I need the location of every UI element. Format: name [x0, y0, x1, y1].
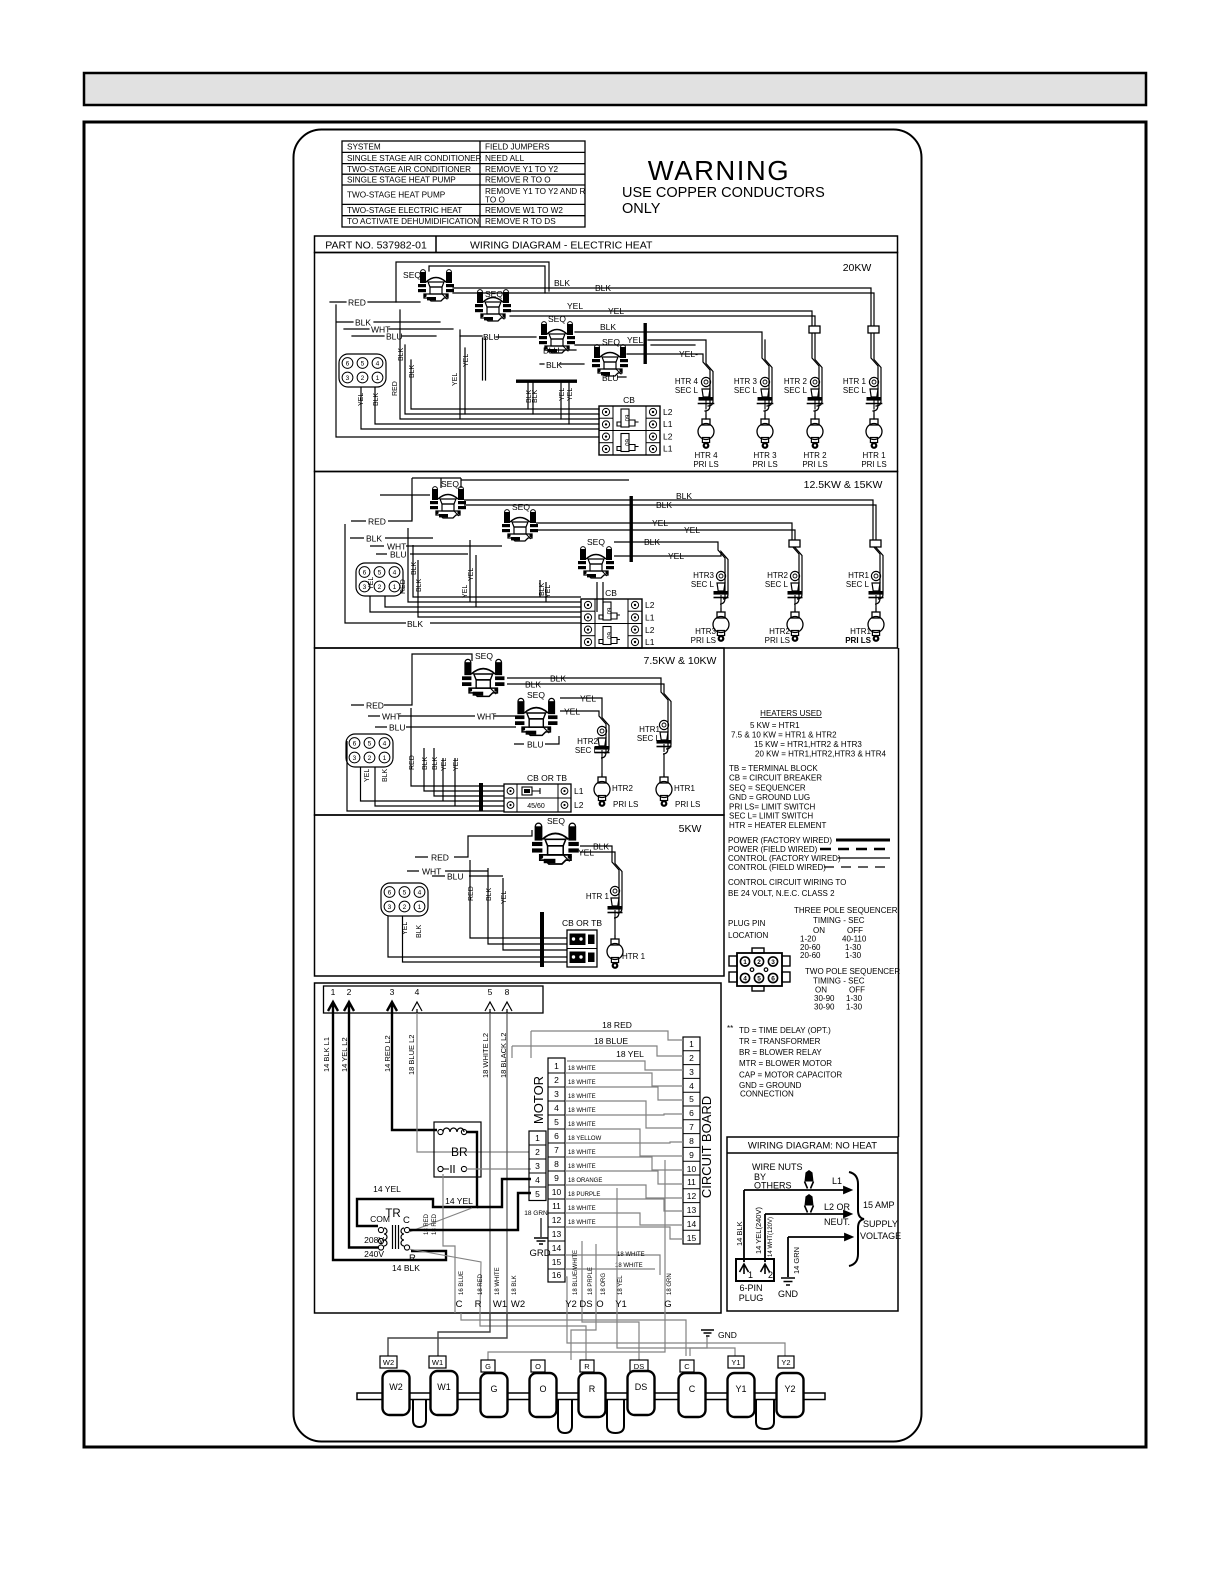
svg-text:SEQ = SEQUENCER: SEQ = SEQUENCER — [729, 783, 806, 792]
svg-text:FIELD JUMPERS: FIELD JUMPERS — [485, 143, 550, 152]
svg-text:8: 8 — [554, 1159, 559, 1169]
svg-text:RED: RED — [392, 381, 399, 396]
svg-text:14 YEL(240V): 14 YEL(240V) — [754, 1207, 763, 1254]
svg-text:PRI LS= LIMIT SWITCH: PRI LS= LIMIT SWITCH — [729, 802, 816, 811]
wire BLU — [352, 335, 482, 337]
svg-text:BLK: BLK — [422, 756, 429, 770]
jumper hook R-DS — [607, 1400, 624, 1433]
svg-text:CB: CB — [605, 588, 617, 598]
svg-text:SEC L: SEC L — [637, 734, 661, 743]
svg-text:6: 6 — [689, 1108, 694, 1118]
svg-text:R: R — [584, 1362, 590, 1371]
svg-text:YEL: YEL — [462, 585, 469, 598]
svg-text:BLK: BLK — [554, 278, 570, 288]
svg-text:18 WHITE: 18 WHITE — [617, 1252, 645, 1258]
sequencer SEQ2 — [475, 290, 511, 321]
svg-text:7: 7 — [689, 1122, 694, 1132]
svg-text:REMOVE R TO DS: REMOVE R TO DS — [485, 217, 556, 226]
svg-text:18 WHITE: 18 WHITE — [568, 1066, 596, 1072]
svg-text:13: 13 — [552, 1229, 562, 1239]
svg-text:BLK: BLK — [656, 500, 672, 510]
6-pin plug box — [736, 1259, 774, 1281]
wire L1 — [744, 1187, 851, 1193]
svg-text:PRI LS: PRI LS — [845, 636, 871, 645]
wire BLK run to HTR1 — [464, 500, 880, 612]
wire WHT — [368, 715, 515, 717]
svg-text:14: 14 — [687, 1219, 697, 1229]
motor wires to circuit board — [565, 1073, 683, 1275]
svg-text:14 RED L2: 14 RED L2 — [383, 1035, 392, 1072]
svg-text:1: 1 — [743, 959, 747, 966]
heater column HTR3 — [734, 377, 778, 469]
svg-text:SEQ: SEQ — [403, 270, 421, 280]
svg-text:YEL: YEL — [545, 585, 552, 598]
svg-text:CONTROL CIRCUIT WIRING TO: CONTROL CIRCUIT WIRING TO — [728, 878, 846, 887]
jumper hook Y1-Y2 — [756, 1400, 774, 1429]
wire 18 RED — [531, 1031, 683, 1058]
svg-text:PRI LS: PRI LS — [802, 460, 827, 469]
wire BLK — [350, 537, 433, 539]
svg-text:YEL-: YEL- — [627, 335, 646, 345]
svg-text:6: 6 — [771, 976, 775, 983]
svg-text:L1: L1 — [663, 444, 673, 454]
svg-text:14 BLK: 14 BLK — [392, 1263, 420, 1273]
svg-text:SEQ: SEQ — [527, 690, 545, 700]
svg-text:14 GRN: 14 GRN — [792, 1247, 801, 1274]
svg-text:SYSTEM: SYSTEM — [347, 143, 381, 152]
junction bar vertical — [540, 912, 544, 967]
svg-text:BLK: BLK — [525, 680, 541, 690]
wire drops to CB bus — [345, 524, 603, 623]
wire YEL run to HTR2 — [510, 311, 819, 419]
svg-text:YEL: YEL — [453, 758, 460, 771]
svg-text:SEC L: SEC L — [734, 386, 758, 395]
terminal bus bar — [357, 1393, 825, 1400]
svg-text:TD = TIME DELAY (OPT.): TD = TIME DELAY (OPT.) — [739, 1026, 831, 1035]
svg-text:BLK: BLK — [416, 924, 423, 938]
wire C to small box — [461, 1313, 686, 1356]
svg-text:SEC L: SEC L — [691, 580, 715, 589]
svg-text:MOTOR: MOTOR — [531, 1076, 546, 1124]
svg-text:HTR 1: HTR 1 — [586, 892, 610, 901]
svg-text:10: 10 — [552, 1187, 562, 1197]
small box Y1 — [728, 1356, 744, 1368]
system / field jumpers table — [342, 141, 585, 227]
svg-text:HTR2: HTR2 — [767, 571, 788, 580]
svg-text:HTR1: HTR1 — [848, 571, 869, 580]
svg-text:6: 6 — [554, 1131, 559, 1141]
svg-text:BLK: BLK — [416, 578, 423, 592]
svg-text:BLK: BLK — [382, 768, 389, 782]
svg-text:18 WHITE: 18 WHITE — [568, 1206, 596, 1212]
svg-text:HTR2: HTR2 — [612, 784, 633, 793]
wire vertical pair HTR4 second — [648, 340, 772, 406]
wire BLK run 2 — [507, 684, 671, 749]
plug P2 6-pin — [356, 563, 403, 596]
wire GND — [788, 1234, 852, 1240]
svg-text:BE 24 VOLT, N.E.C. CLASS 2: BE 24 VOLT, N.E.C. CLASS 2 — [728, 889, 835, 898]
heater column HTR2 — [575, 726, 638, 809]
svg-text:SEQ: SEQ — [485, 289, 503, 299]
svg-text:HTR1: HTR1 — [639, 725, 660, 734]
arrow pin 8 — [502, 1002, 512, 1013]
svg-text:SINGLE STAGE AIR CONDITIONER: SINGLE STAGE AIR CONDITIONER — [347, 154, 482, 163]
svg-text:TWO-STAGE AIR CONDITIONER: TWO-STAGE AIR CONDITIONER — [347, 165, 471, 174]
terminal C — [679, 1373, 706, 1417]
svg-text:TIMING - SEC: TIMING - SEC — [813, 977, 865, 986]
svg-text:PRI LS: PRI LS — [693, 460, 718, 469]
wire W2 to small box — [388, 1313, 507, 1356]
svg-text:HTR2: HTR2 — [769, 627, 790, 636]
svg-text:18 BLUE/WHITE: 18 BLUE/WHITE — [573, 1250, 579, 1295]
svg-text:TO O: TO O — [485, 196, 505, 205]
svg-text:6-PIN: 6-PIN — [739, 1283, 762, 1293]
svg-text:R: R — [589, 1384, 596, 1394]
wire RED — [351, 654, 472, 705]
svg-text:YEL: YEL — [501, 891, 508, 904]
wire R to small box — [480, 1313, 586, 1360]
svg-text:2: 2 — [347, 987, 352, 997]
svg-text:HTR1: HTR1 — [674, 784, 695, 793]
svg-text:HTR 1: HTR 1 — [843, 377, 867, 386]
svg-text:BLK: BLK — [644, 537, 660, 547]
terminal W1 — [431, 1371, 458, 1415]
svg-text:SEQ: SEQ — [512, 502, 530, 512]
wire BLK — [337, 321, 440, 323]
svg-text:REMOVE Y1 TO Y2: REMOVE Y1 TO Y2 — [485, 165, 559, 174]
svg-text:18 YEL: 18 YEL — [618, 1275, 624, 1295]
svg-text:18 GRN: 18 GRN — [524, 1210, 548, 1217]
svg-text:2: 2 — [757, 959, 761, 966]
svg-text:BLU: BLU — [527, 740, 544, 750]
svg-text:L1: L1 — [574, 786, 584, 796]
wire YEL from SEQ3 — [575, 344, 695, 346]
svg-text:18 WHITE: 18 WHITE — [568, 1094, 596, 1100]
svg-text:8: 8 — [505, 987, 510, 997]
wire to fan pin 4 — [477, 1179, 531, 1207]
small box DS — [630, 1360, 648, 1372]
svg-text:13: 13 — [687, 1205, 697, 1215]
svg-text:BLK: BLK — [409, 364, 416, 378]
svg-text:C: C — [689, 1384, 696, 1394]
svg-text:HTR 3: HTR 3 — [753, 451, 777, 460]
svg-text:BLK: BLK — [486, 887, 493, 901]
wire RED — [415, 830, 532, 857]
junction bar vertical — [630, 496, 633, 562]
svg-text:18 GRN: 18 GRN — [667, 1273, 673, 1295]
arrow pin 4 — [412, 1002, 422, 1013]
svg-text:RED: RED — [400, 579, 407, 594]
sequencer SEQ1 — [430, 487, 466, 518]
svg-text:14 BLK L1: 14 BLK L1 — [322, 1037, 331, 1072]
svg-text:W1: W1 — [432, 1358, 443, 1367]
svg-text:BLK: BLK — [532, 389, 539, 403]
feed wire 5 18WHITE — [489, 1013, 491, 1313]
svg-text:SINGLE STAGE HEAT PUMP: SINGLE STAGE HEAT PUMP — [347, 175, 456, 184]
svg-text:18 RED: 18 RED — [424, 1213, 430, 1235]
terminal block CB OR TB — [504, 784, 571, 812]
svg-text:BLK: BLK — [411, 561, 418, 575]
svg-text:YEL: YEL — [441, 758, 448, 771]
svg-text:16: 16 — [552, 1270, 562, 1280]
svg-text:SEC L: SEC L — [575, 746, 599, 755]
svg-text:SEC L: SEC L — [765, 580, 789, 589]
heater column HTR4 — [675, 377, 719, 469]
svg-text:THREE POLE SEQUENCER: THREE POLE SEQUENCER — [794, 906, 898, 915]
svg-text:DS: DS — [579, 1299, 592, 1310]
fan connector 1-5 — [529, 1131, 546, 1201]
svg-text:W2: W2 — [511, 1299, 525, 1310]
svg-text:REMOVE R TO O: REMOVE R TO O — [485, 175, 551, 184]
wire YEL run to HTR4 — [627, 354, 710, 419]
inner rounded frame — [294, 130, 922, 1442]
svg-text:2: 2 — [689, 1053, 694, 1063]
svg-text:3: 3 — [535, 1161, 540, 1171]
svg-text:18 WHITE L2: 18 WHITE L2 — [481, 1033, 490, 1078]
arrow pin 2 — [344, 1002, 354, 1013]
svg-text:BLK: BLK — [546, 360, 562, 370]
svg-text:GND = GROUND LUG: GND = GROUND LUG — [729, 793, 810, 802]
wire TR diagonals — [409, 1208, 481, 1313]
svg-text:SEC L: SEC L — [846, 580, 870, 589]
svg-text:HTR3: HTR3 — [695, 627, 716, 636]
svg-text:L1: L1 — [645, 613, 655, 623]
svg-text:C: C — [684, 1362, 690, 1371]
svg-text:HTR 4: HTR 4 — [694, 451, 718, 460]
svg-text:1: 1 — [689, 1039, 694, 1049]
svg-text:15 AMP: 15 AMP — [863, 1200, 895, 1210]
svg-text:BLK: BLK — [593, 842, 609, 852]
transformer TR — [364, 1208, 420, 1273]
svg-text:12.5KW & 15KW: 12.5KW & 15KW — [804, 479, 883, 491]
incoming line connector box — [324, 986, 544, 1013]
svg-text:CONTROL (FACTORY WIRED): CONTROL (FACTORY WIRED) — [728, 854, 841, 863]
wire YEL run 2 — [536, 530, 802, 599]
svg-text:**: ** — [727, 1024, 733, 1033]
svg-text:1: 1 — [554, 1061, 559, 1071]
wire BLU — [432, 875, 503, 877]
wire RED — [330, 301, 420, 303]
svg-text:3: 3 — [689, 1067, 694, 1077]
wire vertical pair — [483, 338, 486, 380]
ground GND top — [701, 1330, 714, 1336]
svg-text:SEQ: SEQ — [587, 537, 605, 547]
motor pin strip — [531, 1058, 565, 1282]
svg-text:HTR 3: HTR 3 — [734, 377, 758, 386]
wire BLU 2 — [514, 736, 559, 744]
svg-text:18 RED: 18 RED — [602, 1020, 632, 1030]
svg-text:SUPPLY: SUPPLY — [863, 1219, 898, 1229]
svg-text:5: 5 — [488, 987, 493, 997]
wire YEL run — [560, 698, 609, 753]
wire WHT — [370, 545, 502, 547]
svg-text:Y2: Y2 — [781, 1358, 790, 1367]
svg-text:BLU: BLU — [390, 550, 407, 560]
wire drops from plug and sequencers to breaker bus — [336, 305, 599, 437]
svg-text:WHT: WHT — [477, 712, 496, 722]
svg-text:18 WHITE: 18 WHITE — [568, 1122, 596, 1128]
junction bar vertical — [479, 783, 483, 811]
svg-text:5 KW = HTR1: 5 KW = HTR1 — [750, 721, 800, 730]
svg-text:YEL: YEL — [559, 388, 566, 401]
svg-text:12: 12 — [687, 1191, 697, 1201]
svg-text:RED: RED — [368, 517, 386, 527]
svg-text:PART NO. 537982-01: PART NO. 537982-01 — [325, 240, 427, 252]
heater column HTR1 — [637, 720, 700, 809]
feed wire 1 14BLK — [333, 1013, 446, 1260]
svg-text:MTR = BLOWER MOTOR: MTR = BLOWER MOTOR — [739, 1059, 832, 1068]
svg-text:14 YEL: 14 YEL — [445, 1196, 473, 1206]
svg-text:5: 5 — [554, 1117, 559, 1127]
svg-text:TR = TRANSFORMER: TR = TRANSFORMER — [739, 1037, 821, 1046]
terminal O — [530, 1373, 557, 1417]
svg-text:L2: L2 — [663, 407, 673, 417]
svg-text:W1: W1 — [437, 1382, 451, 1392]
svg-text:HTR3: HTR3 — [693, 571, 714, 580]
svg-text:2: 2 — [535, 1147, 540, 1157]
svg-text:YEL: YEL — [608, 306, 624, 316]
wire BR coil to right — [357, 1132, 477, 1226]
svg-text:PRI LS: PRI LS — [691, 636, 716, 645]
svg-text:YEL: YEL — [564, 707, 580, 717]
svg-text:7: 7 — [554, 1145, 559, 1155]
circuit breaker CB — [581, 599, 642, 648]
wire BLK run — [580, 846, 619, 939]
svg-text:YEL: YEL — [368, 577, 375, 590]
svg-text:CB OR TB: CB OR TB — [562, 918, 602, 928]
svg-text:O: O — [596, 1299, 603, 1310]
svg-text:CAP = MOTOR CAPACITOR: CAP = MOTOR CAPACITOR — [739, 1071, 842, 1080]
svg-text:SEQ: SEQ — [441, 479, 459, 489]
sequencer SEQ3 — [539, 322, 575, 353]
svg-text:TWO-STAGE HEAT PUMP: TWO-STAGE HEAT PUMP — [347, 191, 446, 200]
svg-text:18 ORANGE: 18 ORANGE — [568, 1178, 602, 1184]
svg-text:3: 3 — [771, 959, 775, 966]
svg-text:YEL: YEL — [668, 551, 684, 561]
heater column HTR3 — [691, 571, 729, 645]
svg-text:18 WHITE: 18 WHITE — [568, 1080, 596, 1086]
plug P3 6-pin — [346, 734, 393, 767]
svg-text:O: O — [539, 1384, 546, 1394]
svg-text:BLK: BLK — [373, 392, 380, 406]
svg-text:HTR 1: HTR 1 — [862, 451, 886, 460]
small box R — [580, 1360, 594, 1372]
svg-text:18 BLUE L2: 18 BLUE L2 — [407, 1035, 416, 1075]
svg-text:NEUT.: NEUT. — [824, 1217, 850, 1227]
terminal W2 — [383, 1371, 804, 1417]
wire drops to CB bus — [388, 860, 567, 962]
svg-text:YEL: YEL — [684, 525, 700, 535]
svg-text:18 WHITE: 18 WHITE — [568, 1164, 596, 1170]
svg-text:2: 2 — [554, 1075, 559, 1085]
svg-text:4: 4 — [689, 1081, 694, 1091]
svg-text:NEED ALL: NEED ALL — [485, 154, 525, 163]
svg-text:CB = CIRCUIT BREAKER: CB = CIRCUIT BREAKER — [729, 774, 822, 783]
motor wire color labels — [568, 1066, 645, 1269]
svg-text:5: 5 — [757, 976, 761, 983]
jumper hook O-R — [558, 1400, 572, 1433]
svg-text:BLK: BLK — [676, 491, 692, 501]
arrow pin 1 — [328, 1002, 338, 1013]
svg-text:20 KW = HTR1,HTR2,HTR3 & HTR4: 20 KW = HTR1,HTR2,HTR3 & HTR4 — [755, 750, 886, 759]
svg-text:CIRCUIT BOARD: CIRCUIT BOARD — [699, 1096, 714, 1198]
svg-text:BLU: BLU — [389, 723, 406, 733]
svg-text:14 WHT(120V): 14 WHT(120V) — [768, 1217, 774, 1257]
svg-text:14 YEL L2: 14 YEL L2 — [340, 1037, 349, 1072]
sequencer SEQ4 — [592, 345, 628, 376]
wire L2 — [765, 1211, 851, 1217]
svg-text:SEC L: SEC L — [675, 386, 699, 395]
svg-text:BLK: BLK — [366, 534, 382, 544]
svg-text:Y1: Y1 — [735, 1384, 746, 1394]
header grey bar — [84, 73, 1146, 105]
wire Y1 to small box — [617, 1313, 735, 1356]
svg-text:TWO POLE SEQUENCER: TWO POLE SEQUENCER — [805, 967, 900, 976]
svg-text:YEL: YEL — [402, 922, 409, 935]
svg-text:HEATERS USED: HEATERS USED — [760, 709, 822, 718]
svg-text:PLUG PIN: PLUG PIN — [728, 919, 766, 928]
svg-text:L1: L1 — [645, 637, 655, 647]
svg-text:RED: RED — [468, 886, 475, 901]
svg-text:18 RED: 18 RED — [478, 1273, 484, 1295]
svg-text:CB: CB — [623, 395, 635, 405]
svg-text:BLK: BLK — [407, 619, 423, 629]
svg-text:G: G — [664, 1299, 671, 1310]
svg-text:LOCATION: LOCATION — [728, 931, 769, 940]
svg-text:HTR = HEATER ELEMENT: HTR = HEATER ELEMENT — [729, 821, 827, 830]
svg-text:GND: GND — [718, 1330, 737, 1340]
svg-text:WHT: WHT — [422, 867, 441, 877]
svg-text:18 YELLOW: 18 YELLOW — [568, 1136, 602, 1142]
svg-text:W2: W2 — [383, 1358, 394, 1367]
svg-text:DS: DS — [635, 1382, 648, 1392]
svg-text:CB OR TB: CB OR TB — [527, 773, 567, 783]
heater column HTR2 — [784, 377, 828, 469]
svg-text:12: 12 — [552, 1215, 562, 1225]
svg-text:18 RED: 18 RED — [432, 1213, 438, 1235]
ground symbol — [781, 1278, 795, 1285]
svg-text:L2: L2 — [663, 432, 673, 442]
svg-text:YEL: YEL — [452, 373, 459, 386]
svg-text:18 WHITE: 18 WHITE — [495, 1267, 501, 1295]
rotated feed labels — [322, 1033, 508, 1078]
svg-text:CONTROL (FIELD WIRED): CONTROL (FIELD WIRED) — [728, 863, 826, 872]
svg-text:L2: L2 — [574, 800, 584, 810]
svg-text:TB = TERMINAL BLOCK: TB = TERMINAL BLOCK — [729, 764, 818, 773]
svg-text:BR: BR — [451, 1145, 468, 1159]
svg-text:5KW: 5KW — [679, 823, 702, 835]
svg-text:1: 1 — [748, 1270, 753, 1280]
svg-text:SEQ: SEQ — [475, 651, 493, 661]
small box W2 — [380, 1356, 794, 1372]
svg-text:30-90: 30-90 — [814, 1003, 835, 1012]
svg-text:Y2: Y2 — [784, 1384, 795, 1394]
svg-text:PLUG: PLUG — [739, 1293, 764, 1303]
svg-text:RED: RED — [366, 701, 384, 711]
svg-text:15: 15 — [552, 1257, 562, 1267]
arrow pin 5 — [485, 1002, 495, 1013]
svg-text:1: 1 — [535, 1133, 540, 1143]
svg-text:4: 4 — [554, 1103, 559, 1113]
svg-text:G: G — [485, 1362, 491, 1371]
svg-text:4: 4 — [743, 976, 747, 983]
svg-text:10: 10 — [687, 1164, 697, 1174]
svg-text:O: O — [535, 1362, 541, 1371]
wire WHT — [344, 328, 453, 330]
svg-text:3: 3 — [390, 987, 395, 997]
svg-text:TWO-STAGE ELECTRIC HEAT: TWO-STAGE ELECTRIC HEAT — [347, 206, 462, 215]
wire G to small box — [488, 1313, 665, 1360]
